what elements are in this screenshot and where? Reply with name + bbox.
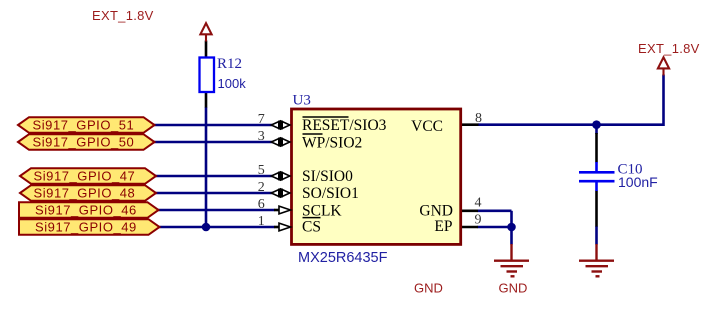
svg-text:Si917_GPIO_47: Si917_GPIO_47 [34, 169, 136, 184]
svg-text:100k: 100k [218, 76, 247, 91]
svg-text:R12: R12 [217, 56, 242, 72]
svg-text:8: 8 [475, 111, 482, 126]
svg-text:Si917_GPIO_51: Si917_GPIO_51 [33, 118, 135, 133]
svg-text:GND: GND [499, 281, 528, 296]
svg-text:EXT_1.8V: EXT_1.8V [638, 41, 700, 56]
svg-text:1: 1 [258, 214, 265, 229]
svg-text:2: 2 [258, 180, 265, 195]
svg-text:Si917_GPIO_48: Si917_GPIO_48 [34, 186, 136, 201]
svg-text:WP/SIO2: WP/SIO2 [302, 135, 362, 152]
svg-text:4: 4 [475, 196, 482, 211]
svg-text:Si917_GPIO_46: Si917_GPIO_46 [35, 203, 137, 218]
svg-text:100nF: 100nF [618, 174, 658, 190]
svg-text:3: 3 [258, 129, 265, 144]
svg-text:GND: GND [414, 281, 443, 296]
svg-text:RESET/SIO3: RESET/SIO3 [302, 117, 387, 134]
svg-text:7: 7 [258, 112, 265, 127]
svg-text:SCLK: SCLK [302, 202, 342, 219]
svg-text:SI/SIO0: SI/SIO0 [302, 168, 353, 185]
svg-text:EXT_1.8V: EXT_1.8V [92, 8, 154, 23]
svg-text:U3: U3 [293, 93, 311, 109]
svg-text:5: 5 [258, 163, 265, 178]
svg-text:GND: GND [419, 202, 453, 219]
svg-text:VCC: VCC [411, 118, 443, 135]
svg-text:9: 9 [475, 213, 482, 228]
svg-text:EP: EP [434, 218, 452, 235]
svg-text:CS: CS [302, 218, 321, 235]
svg-text:Si917_GPIO_50: Si917_GPIO_50 [33, 135, 135, 150]
svg-text:6: 6 [258, 197, 265, 212]
svg-text:Si917_GPIO_49: Si917_GPIO_49 [35, 220, 137, 235]
svg-text:SO/SIO1: SO/SIO1 [302, 185, 359, 202]
svg-text:MX25R6435F: MX25R6435F [298, 250, 388, 266]
